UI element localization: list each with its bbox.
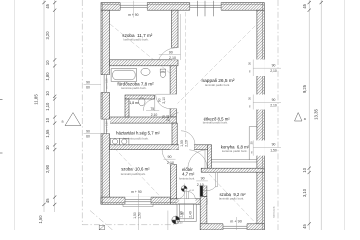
svg-text:10: 10 bbox=[45, 60, 50, 65]
svg-text:3,20: 3,20 bbox=[45, 31, 50, 40]
svg-text:1,55: 1,55 bbox=[45, 129, 50, 138]
svg-text:3,10: 3,10 bbox=[302, 188, 307, 197]
svg-text:laminált padló burk.: laminált padló burk. bbox=[219, 197, 244, 201]
svg-text:45: 45 bbox=[302, 3, 307, 8]
svg-text:10: 10 bbox=[45, 91, 50, 96]
svg-text:kerámia padló burk.: kerámia padló burk. bbox=[123, 137, 149, 141]
svg-text:10: 10 bbox=[302, 167, 307, 172]
svg-text:1,50: 1,50 bbox=[133, 212, 137, 219]
svg-text:10: 10 bbox=[45, 145, 50, 150]
svg-text:90: 90 bbox=[272, 98, 276, 102]
svg-text:m + 90: m + 90 bbox=[128, 13, 139, 17]
svg-text:75: 75 bbox=[150, 107, 154, 111]
svg-text:90: 90 bbox=[272, 143, 276, 147]
svg-text:2,10: 2,10 bbox=[169, 56, 176, 60]
svg-text:+0,32: +0,32 bbox=[189, 190, 195, 192]
svg-text:2,10: 2,10 bbox=[270, 104, 277, 108]
svg-text:30: 30 bbox=[250, 141, 254, 145]
svg-text:laminált padló burk.: laminált padló burk. bbox=[203, 121, 228, 125]
svg-text:m + 90: m + 90 bbox=[131, 190, 142, 194]
svg-text:2,10: 2,10 bbox=[167, 161, 174, 165]
svg-text:kültéri járda: kültéri járda bbox=[273, 206, 276, 218]
svg-text:60: 60 bbox=[181, 211, 185, 215]
svg-text:2,90: 2,90 bbox=[45, 164, 50, 173]
svg-text:a: a bbox=[62, 120, 64, 124]
svg-text:90: 90 bbox=[169, 51, 173, 55]
svg-text:2,10: 2,10 bbox=[270, 69, 277, 73]
svg-text:háztartási h.ség 5,7 m²: háztartási h.ség 5,7 m² bbox=[116, 131, 160, 136]
svg-text:m + 1,50: m + 1,50 bbox=[105, 121, 109, 132]
svg-text:90: 90 bbox=[201, 177, 205, 181]
svg-text:1,8 m²: 1,8 m² bbox=[129, 101, 139, 105]
svg-text:2,40: 2,40 bbox=[189, 211, 193, 218]
svg-text:90: 90 bbox=[272, 64, 276, 68]
svg-text:1,10: 1,10 bbox=[45, 102, 50, 111]
svg-text:11,85: 11,85 bbox=[33, 94, 38, 105]
svg-text:±0,30: ±0,30 bbox=[177, 221, 184, 224]
svg-text:m + 1,50: m + 1,50 bbox=[105, 78, 109, 89]
svg-text:90: 90 bbox=[168, 155, 172, 159]
svg-text:laminált padló burk.: laminált padló burk. bbox=[121, 172, 146, 176]
svg-text:9,25: 9,25 bbox=[302, 84, 307, 93]
svg-text:30: 30 bbox=[248, 97, 252, 101]
svg-text:2,10: 2,10 bbox=[151, 113, 158, 117]
svg-text:szoba 10,6 m²: szoba 10,6 m² bbox=[121, 166, 150, 171]
svg-text:1,50: 1,50 bbox=[138, 212, 142, 219]
svg-text:1,50: 1,50 bbox=[270, 148, 277, 152]
svg-text:1,80: 1,80 bbox=[45, 72, 50, 81]
svg-text:10: 10 bbox=[45, 117, 50, 122]
svg-text:30: 30 bbox=[248, 62, 252, 66]
svg-text:90: 90 bbox=[86, 130, 90, 134]
svg-text:2,10: 2,10 bbox=[166, 115, 170, 121]
svg-text:2,10: 2,10 bbox=[162, 97, 166, 104]
svg-text:kerámia burk.: kerámia burk. bbox=[179, 176, 195, 180]
svg-text:a: a bbox=[304, 117, 306, 121]
svg-text:90: 90 bbox=[86, 81, 90, 85]
svg-text:kerámia padló burk.: kerámia padló burk. bbox=[121, 86, 147, 90]
svg-text:45: 45 bbox=[302, 224, 307, 229]
svg-text:45: 45 bbox=[45, 3, 50, 8]
svg-text:kerámia padló burk.: kerámia padló burk. bbox=[222, 149, 248, 153]
svg-text:m + 90: m + 90 bbox=[230, 219, 242, 223]
svg-text:45: 45 bbox=[45, 198, 50, 203]
svg-text:90: 90 bbox=[157, 98, 161, 102]
svg-text:laminált padló burk.: laminált padló burk. bbox=[205, 83, 230, 87]
svg-text:60: 60 bbox=[86, 135, 90, 139]
svg-text:2,10: 2,10 bbox=[184, 140, 188, 147]
svg-text:1,50: 1,50 bbox=[38, 215, 43, 224]
svg-text:laminált padló burk.: laminált padló burk. bbox=[124, 37, 149, 41]
svg-text:60: 60 bbox=[86, 86, 90, 90]
svg-text:4,7 m²: 4,7 m² bbox=[182, 172, 195, 177]
svg-text:13,35: 13,35 bbox=[314, 109, 319, 120]
svg-text:2,10: 2,10 bbox=[197, 183, 204, 187]
